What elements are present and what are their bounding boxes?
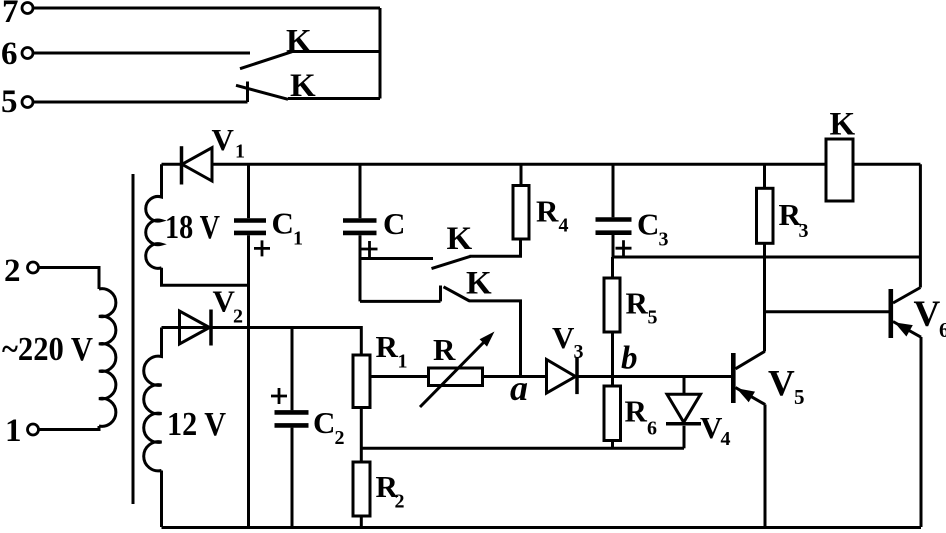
- wire contact 6 to vertical: [291, 50, 380, 53]
- svg-text:7: 7: [2, 0, 19, 30]
- transistor V5: [733, 351, 765, 527]
- wire terminal 2 to primary: [39, 268, 100, 290]
- wire terminal 7 to right vertical: [34, 7, 381, 10]
- svg-text:4: 4: [721, 428, 731, 450]
- svg-text:R: R: [625, 394, 648, 429]
- svg-text:C: C: [637, 207, 659, 242]
- label ~220 V: [2, 331, 93, 368]
- capacitor C1: [234, 164, 270, 527]
- svg-text:1: 1: [293, 228, 303, 250]
- wire C3 row to right vertical: [613, 256, 920, 259]
- svg-text:V: V: [552, 320, 575, 355]
- resistor R2: [353, 462, 370, 527]
- svg-text:~220 V: ~220 V: [2, 331, 93, 368]
- wire lower switch to node a: [469, 301, 521, 377]
- svg-text:V: V: [212, 122, 235, 157]
- switch K contact on line 6: [240, 52, 292, 69]
- capacitor C: [343, 164, 378, 301]
- top rail: [212, 163, 920, 166]
- label K: [466, 266, 492, 302]
- diode V4: [666, 377, 701, 449]
- svg-text:K: K: [447, 221, 473, 257]
- label K: [290, 68, 316, 104]
- label C2: [313, 405, 345, 449]
- svg-text:2: 2: [233, 306, 243, 328]
- label 18 V: [165, 209, 220, 246]
- svg-text:R: R: [626, 286, 649, 321]
- label K: [286, 24, 312, 60]
- resistor R1: [353, 355, 370, 462]
- label R6: [625, 394, 658, 440]
- label V5: [768, 364, 805, 410]
- wire right vertical of contact block: [379, 8, 382, 99]
- svg-text:3: 3: [659, 229, 669, 251]
- switch K lower: [441, 286, 470, 302]
- wire V6 base: [765, 310, 889, 313]
- svg-text:6: 6: [1, 36, 18, 72]
- svg-text:2: 2: [335, 427, 345, 449]
- label V3: [552, 320, 584, 363]
- resistor R5: [604, 257, 620, 386]
- wire terminal 6 to contact: [34, 52, 251, 55]
- svg-text:18 V: 18 V: [165, 209, 220, 246]
- terminal 2: [4, 253, 39, 289]
- wire terminal 5 to contact: [34, 101, 248, 104]
- svg-text:K: K: [286, 24, 312, 60]
- label V4: [700, 410, 731, 450]
- wire R2 top row: [361, 447, 684, 450]
- svg-text:5: 5: [1, 84, 18, 120]
- svg-text:C: C: [313, 405, 335, 440]
- diode V3: [547, 357, 578, 394]
- resistor R6: [604, 386, 621, 448]
- node b: [621, 341, 638, 377]
- label R3: [779, 197, 809, 242]
- svg-text:12 V: 12 V: [167, 406, 226, 443]
- svg-text:5: 5: [794, 385, 805, 409]
- wire 18V winding bottom to C1 lead: [162, 268, 249, 285]
- label R4: [536, 194, 569, 237]
- wire primary to terminal 1: [39, 426, 100, 430]
- wire V3 to V5 base: [578, 375, 731, 378]
- primary winding: [99, 289, 116, 427]
- terminal 1: [5, 413, 39, 449]
- svg-text:C: C: [272, 206, 294, 241]
- label R5: [626, 286, 658, 329]
- bottom rail: [162, 526, 922, 529]
- svg-text:1: 1: [5, 413, 22, 449]
- svg-text:C: C: [383, 206, 405, 241]
- label R1: [376, 329, 408, 373]
- terminal 6: [1, 36, 33, 72]
- diode V2: [180, 310, 212, 346]
- svg-text:b: b: [621, 341, 638, 377]
- svg-text:1: 1: [235, 141, 245, 163]
- label C: [383, 206, 405, 241]
- svg-text:2: 2: [4, 253, 21, 289]
- label R2: [376, 469, 405, 513]
- svg-text:V: V: [768, 364, 795, 405]
- wire contact 5 to vertical: [288, 97, 380, 100]
- wire V2 row to R1: [162, 328, 362, 356]
- svg-text:R: R: [376, 329, 399, 364]
- switch K upper: [432, 256, 471, 268]
- svg-text:a: a: [510, 368, 528, 408]
- 12V secondary winding: [144, 328, 162, 528]
- resistor R3: [757, 164, 774, 351]
- label K: [447, 221, 473, 257]
- svg-text:4: 4: [559, 215, 569, 237]
- transistor V6: [891, 288, 921, 528]
- resistor R4: [513, 164, 529, 239]
- capacitor C2: [271, 328, 309, 528]
- label V2: [213, 284, 244, 328]
- terminal 7: [2, 0, 33, 30]
- relay coil K: [826, 139, 853, 201]
- svg-text:3: 3: [574, 341, 584, 363]
- switch K contact on line 5: [236, 82, 288, 103]
- wire C to upper switch: [360, 257, 433, 260]
- diode V1: [162, 146, 213, 184]
- node a: [510, 368, 528, 408]
- svg-text:3: 3: [799, 220, 809, 242]
- wire R to V3: [483, 375, 547, 378]
- svg-text:2: 2: [395, 491, 405, 513]
- svg-text:R: R: [536, 194, 559, 229]
- wire upper switch to R4: [470, 239, 521, 256]
- label K: [830, 107, 856, 143]
- svg-text:5: 5: [648, 307, 658, 329]
- svg-text:K: K: [830, 107, 856, 143]
- label V6: [914, 294, 946, 342]
- svg-text:6: 6: [939, 318, 946, 342]
- wire rail to V6 collector: [919, 164, 922, 287]
- label R: [433, 332, 456, 367]
- label 12 V: [167, 406, 226, 443]
- svg-text:V: V: [914, 294, 941, 335]
- 18V secondary winding: [146, 164, 162, 268]
- variable resistor R: [420, 332, 495, 408]
- label C3: [637, 207, 669, 251]
- svg-text:1: 1: [398, 351, 408, 373]
- wire R1 tap to variable resistor R: [370, 375, 429, 378]
- wire C to lower switch: [360, 300, 441, 303]
- terminal 5: [1, 84, 33, 120]
- transformer core: [132, 174, 135, 504]
- label C1: [272, 206, 304, 250]
- svg-text:K: K: [466, 266, 492, 302]
- svg-text:R: R: [433, 332, 456, 367]
- label V1: [212, 122, 246, 163]
- svg-text:6: 6: [647, 418, 657, 440]
- capacitor C3: [596, 164, 632, 257]
